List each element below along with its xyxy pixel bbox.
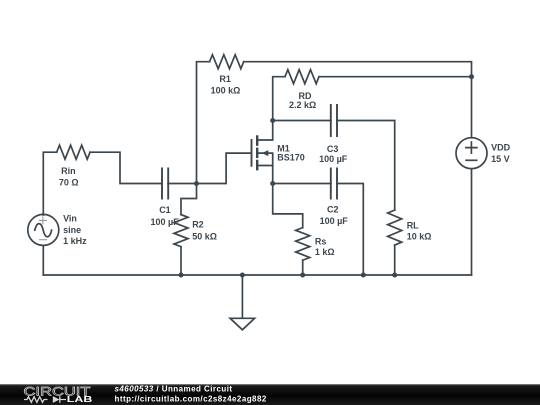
voltage source VDD minus — [466, 159, 477, 161]
junction ground stem — [240, 273, 245, 278]
svg-text:LAB: LAB — [67, 395, 93, 404]
svg-text:R2: R2 — [192, 220, 204, 230]
svg-text:15 V: 15 V — [491, 154, 510, 164]
resistor RD — [285, 70, 319, 84]
svg-text:sine: sine — [63, 225, 81, 235]
logo resistor zigzag — [24, 397, 47, 403]
wire node A up to R1 — [197, 62, 210, 184]
source Vin sine — [35, 224, 52, 237]
svg-text:10 kΩ: 10 kΩ — [407, 231, 432, 241]
svg-text:100 kΩ: 100 kΩ — [211, 86, 241, 96]
svg-text:s4600533 / Unnamed Circuit: s4600533 / Unnamed Circuit — [115, 385, 233, 394]
junction node A — [194, 181, 199, 186]
wire VDD top — [471, 77, 473, 138]
wire VDD bottom — [471, 169, 473, 275]
svg-text:R1: R1 — [219, 74, 231, 84]
wire R2 to ground rail — [180, 247, 182, 275]
junction RL at ground rail — [392, 273, 397, 278]
resistor Rs — [296, 228, 310, 261]
voltage source VDD plus — [466, 142, 477, 153]
svg-text:1 kHz: 1 kHz — [63, 236, 87, 246]
wire node A to gate — [197, 153, 251, 183]
resistor R1 — [210, 55, 244, 69]
junction Rs at ground rail — [300, 273, 305, 278]
transistor M1 gate bar — [251, 140, 253, 166]
svg-text:1 kΩ: 1 kΩ — [315, 247, 335, 257]
junction C2 at ground rail — [361, 273, 366, 278]
junction drain/C3 — [270, 118, 275, 123]
svg-text:100 µF: 100 µF — [319, 154, 348, 164]
resistor R2 — [174, 215, 188, 247]
ground triangle — [230, 318, 255, 330]
capacitor C3 — [331, 105, 337, 136]
wire RD to VDD line — [319, 76, 472, 78]
svg-text:Vin: Vin — [63, 213, 77, 223]
junction R2 at ground rail — [179, 273, 184, 278]
svg-text:Rs: Rs — [315, 236, 327, 246]
resistor Rin — [57, 145, 90, 159]
wire source node to C2 — [273, 183, 331, 185]
source Vin circle — [28, 214, 59, 245]
wire Vin top to Rin — [43, 152, 56, 215]
svg-text:50 kΩ: 50 kΩ — [192, 232, 217, 242]
svg-text:100 µF: 100 µF — [320, 216, 349, 226]
resistor RL — [388, 210, 402, 245]
svg-text:C1: C1 — [159, 205, 171, 215]
source Vin plus — [39, 217, 46, 224]
ground stem — [241, 275, 243, 318]
source Vin minus — [40, 239, 47, 241]
voltage source VDD circle — [456, 138, 487, 169]
wire drain to RD — [273, 77, 285, 121]
svg-text:C3: C3 — [327, 144, 339, 154]
transistor M1 body arrow — [262, 150, 269, 156]
transistor M1 body lead — [258, 153, 273, 165]
logo diode triangle — [53, 396, 60, 403]
wire drain node to C3 — [273, 120, 331, 122]
wire Rs to ground rail — [302, 260, 304, 275]
wire C1 to node A — [168, 183, 196, 185]
wire source node to Rs — [273, 184, 303, 228]
svg-text:70 Ω: 70 Ω — [59, 178, 79, 188]
wire node A down to R2 — [181, 184, 197, 215]
logo diode — [60, 396, 66, 402]
svg-text:http://circuitlab.com/c2s8z4e2: http://circuitlab.com/c2s8z4e2ag882 — [115, 394, 267, 403]
junction source/C2/Rs — [270, 181, 275, 186]
svg-text:Rin: Rin — [61, 166, 76, 176]
capacitor C1 — [162, 169, 168, 199]
junction RD/R1 at VDD line — [469, 74, 474, 79]
svg-text:C2: C2 — [327, 205, 339, 215]
wire RL to ground rail — [394, 245, 396, 275]
svg-text:RL: RL — [407, 220, 419, 230]
capacitor C2 — [331, 169, 337, 199]
svg-text:BS170: BS170 — [277, 152, 305, 162]
svg-text:2.2 kΩ: 2.2 kΩ — [289, 100, 316, 110]
wire C2 down to ground rail — [337, 184, 363, 276]
transistor M1 source lead — [258, 166, 273, 184]
wire R1 to VDD line — [244, 62, 472, 77]
transistor M1 channel bars — [256, 137, 258, 170]
svg-text:100 µF: 100 µF — [151, 217, 180, 227]
transistor M1 drain lead — [258, 121, 273, 141]
wire Vin bottom — [42, 245, 44, 275]
wire C3 to RL — [337, 121, 395, 211]
wire Rin to C1 — [90, 152, 162, 183]
svg-text:VDD: VDD — [491, 143, 511, 153]
wire ground rail — [43, 274, 471, 276]
